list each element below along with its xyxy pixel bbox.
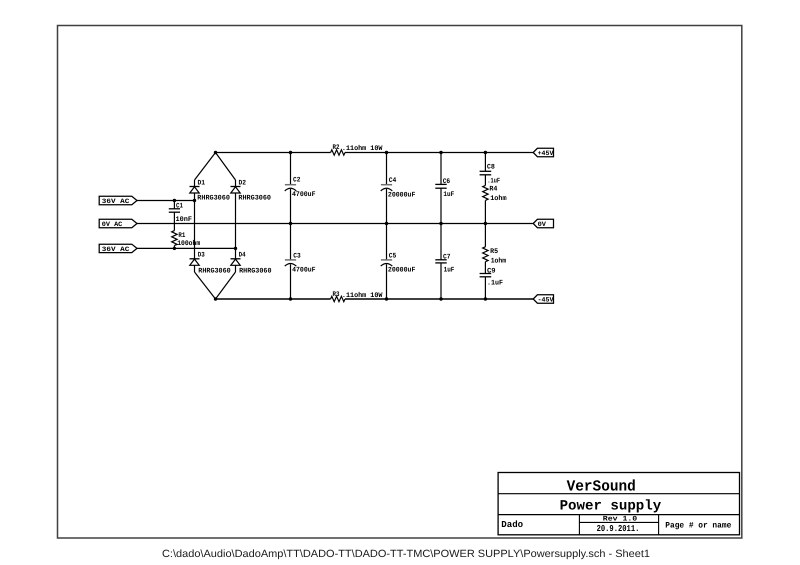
wire D1 top lead [194,180,196,187]
resistor R1 [172,231,177,246]
svg-text:C5: C5 [389,252,397,260]
svg-text:C4: C4 [389,177,397,185]
svg-text:.1uF: .1uF [487,280,503,288]
wire D4 bottom lead [235,265,237,272]
resistor R4 [483,185,488,200]
capacitor C8 [480,171,492,175]
junction C4-C5 / 0V rail [385,222,388,225]
svg-text:4700uF: 4700uF [292,267,316,275]
wire R4 bottom lead [484,200,486,223]
wire AC input 0V [137,223,533,225]
svg-text:C6: C6 [443,178,451,186]
svg-text:D3: D3 [198,251,205,259]
wire C8 top lead [484,153,486,172]
resistor R3 [331,296,345,301]
svg-text:RHRG3060: RHRG3060 [198,267,230,275]
resistor R5 [483,247,488,262]
svg-text:VerSound: VerSound [567,477,636,495]
wire R5 top lead [484,224,486,247]
svg-text:0V: 0V [538,221,546,228]
junction R1 / AC2 [173,247,176,250]
wire C5 bottom lead [386,264,388,299]
junction C8 / top rail [484,151,487,154]
svg-text:20000uF: 20000uF [388,267,416,275]
junction C7 / bottom rail [439,297,442,300]
svg-text:C9: C9 [487,267,496,275]
junction bridge top node [214,151,217,154]
svg-text:R5: R5 [490,248,498,256]
svg-text:D4: D4 [239,251,246,259]
wire C4 bottom lead [386,189,388,224]
svg-text:36V AC: 36V AC [102,198,130,205]
wire C4 top lead [386,153,388,185]
wire bridge top-left diagonal [195,153,216,181]
junction C6 / top rail [439,151,442,154]
wire C6 top lead [440,153,442,185]
capacitor C9 [480,274,492,277]
svg-text:C3: C3 [293,252,300,260]
svg-text:1uF: 1uF [444,267,455,275]
svg-text:RHRG3060: RHRG3060 [239,267,271,275]
svg-text:Page # or name: Page # or name [665,522,731,531]
junction C2-C3 / 0V rail [289,222,292,225]
svg-text:Rev 1.0: Rev 1.0 [603,515,637,523]
wire C3 bottom lead [290,264,292,299]
wire bridge bottom-right diagonal [216,272,236,299]
svg-text:C7: C7 [443,254,451,262]
svg-text:1ohm: 1ohm [490,194,506,203]
junction C1 / AC1 [173,199,176,202]
capacitor C4 [381,185,393,191]
wire C7 top lead [440,224,442,260]
output port +45V [533,148,553,157]
wire C7 bottom lead [440,263,442,299]
svg-text:36V AC: 36V AC [102,246,130,253]
capacitor C2 [285,185,297,191]
wire C2 bottom lead [290,189,292,224]
junction C4 / top rail [385,151,388,154]
junction D2-D4 / AC2 [234,247,237,250]
svg-text:4700uF: 4700uF [292,191,316,199]
svg-text:1ohm: 1ohm [491,256,507,265]
wire AC input 36V bottom [137,247,236,249]
wire C1 top lead [173,201,175,209]
wire AC input 36V top [137,200,195,202]
svg-text:R3: R3 [333,291,340,299]
svg-text:RHRG3060: RHRG3060 [238,195,271,203]
wire C2 top lead [290,153,292,185]
wire top rail right [345,152,533,154]
wire R1 bottom lead [173,246,175,249]
junction C5 / bottom rail [385,297,388,300]
svg-text:1uF: 1uF [443,191,454,199]
diode D3 [190,259,200,266]
wire C3 top lead [290,224,292,260]
junction D1 / AC1 [193,199,196,202]
junction C9 / bottom rail [484,297,487,300]
wire C9 bottom lead [484,277,486,299]
svg-text:+45V: +45V [538,150,554,157]
wire R5-C9 [484,262,486,274]
wire bridge top-right diagonal [216,153,236,181]
capacitor C5 [381,260,393,266]
resistor R2 [331,150,345,155]
junction bridge bottom node [214,297,217,300]
svg-text:R4: R4 [489,186,497,194]
wire C1-R1 [173,212,175,230]
wire bridge bottom-left diagonal [195,272,216,299]
svg-text:C2: C2 [293,176,300,184]
svg-text:RHRG3060: RHRG3060 [197,195,230,203]
svg-text:.1uF: .1uF [487,177,500,185]
wire D2-D4 column [235,193,237,259]
wire C5 top lead [386,224,388,260]
svg-text:R1: R1 [178,232,185,240]
svg-text:.11ohm 10W: .11ohm 10W [342,144,383,153]
wire D3 bottom lead [194,265,196,272]
capacitor C6 [435,184,446,188]
junction C6-C7 / 0V rail [439,222,442,225]
input port 36V AC (top) [99,196,137,205]
svg-text:C1: C1 [176,202,183,210]
wire bottom rail left [216,298,331,300]
svg-text:-45V: -45V [538,296,554,303]
wire D2 top lead [235,180,237,187]
output port 0V [533,219,553,228]
svg-text:Power supply: Power supply [560,499,662,515]
svg-text:0V AC: 0V AC [102,221,123,228]
junction C3 / bottom rail [289,297,292,300]
svg-text:R2: R2 [333,144,340,152]
svg-text:D1: D1 [198,180,206,188]
svg-text:20.9.2011.: 20.9.2011. [597,524,640,534]
title block frame [498,473,739,535]
svg-text:Dado: Dado [501,519,523,530]
wire bottom rail right [345,298,533,300]
output port -45V [533,295,553,304]
capacitor C1 [169,209,180,212]
wire top rail left [216,152,331,154]
junction C2 / top rail [289,151,292,154]
svg-text:100ohm: 100ohm [177,239,200,248]
svg-text:10nF: 10nF [176,216,193,224]
svg-text:20000uF: 20000uF [388,192,416,200]
diode D4 [231,259,241,266]
wire C6 bottom lead [440,188,442,223]
svg-text:C:\dado\Audio\DadoAmp\TT\DADO-: C:\dado\Audio\DadoAmp\TT\DADO-TT\DADO-TT… [162,548,650,560]
capacitor C7 [435,260,446,263]
input port 0V AC [99,219,137,228]
wire C8-R4 [484,175,486,186]
wire D1-D3 column [194,193,196,259]
input port 36V AC (bottom) [99,244,137,253]
diode D1 [190,187,200,194]
svg-text:D2: D2 [239,180,247,188]
diode D2 [231,187,241,194]
junction R4-R5 / 0V rail [484,222,487,225]
svg-text:C8: C8 [487,163,495,171]
capacitor C3 [285,260,297,266]
